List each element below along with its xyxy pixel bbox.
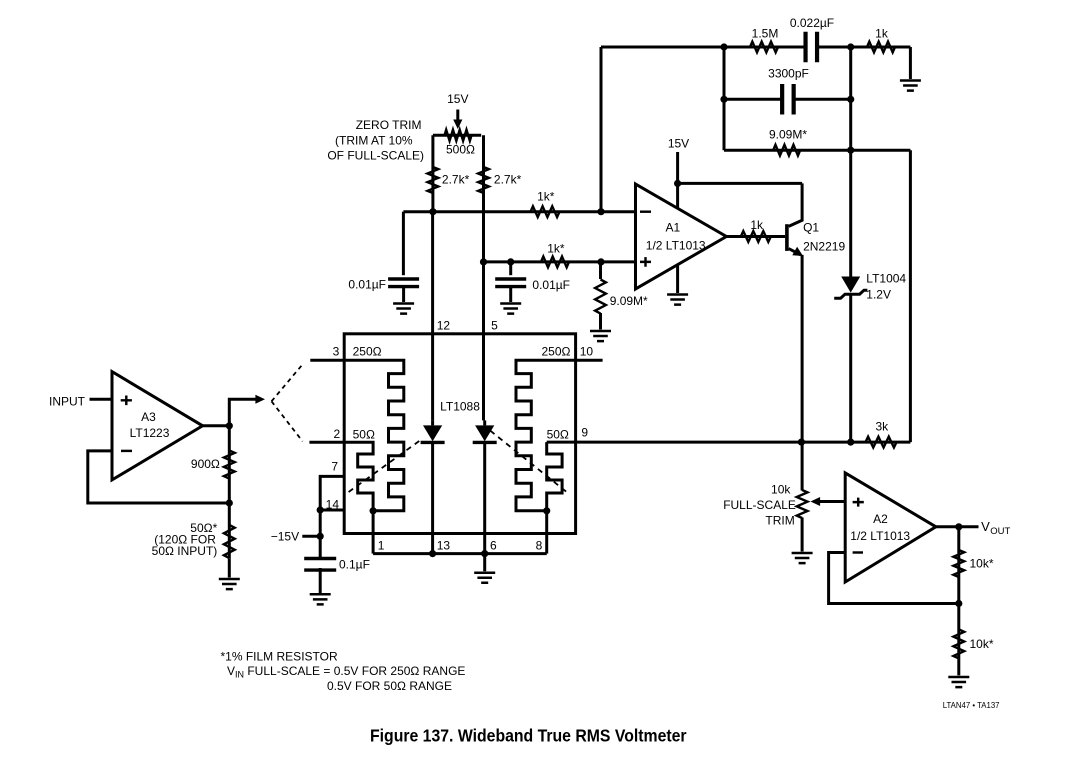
svg-text:OUT: OUT [990, 526, 1010, 537]
svg-text:3300pF: 3300pF [768, 67, 809, 81]
svg-text:0.01µF: 0.01µF [348, 277, 386, 291]
svg-text:LT1223: LT1223 [130, 426, 170, 440]
svg-text:250Ω: 250Ω [542, 344, 571, 358]
svg-text:A3: A3 [141, 410, 156, 424]
svg-text:0.5V FOR 50Ω RANGE: 0.5V FOR 50Ω RANGE [327, 679, 452, 693]
svg-text:LT1088: LT1088 [440, 400, 480, 414]
svg-text:1.2V: 1.2V [866, 287, 891, 301]
svg-text:9.09M*: 9.09M* [769, 128, 807, 142]
svg-text:10: 10 [580, 345, 594, 359]
svg-text:500Ω: 500Ω [446, 142, 475, 156]
svg-text:VIN FULL-SCALE = 0.5V FOR 250Ω: VIN FULL-SCALE = 0.5V FOR 250Ω RANGE [227, 664, 465, 680]
svg-text:5: 5 [491, 319, 498, 333]
svg-text:1/2 LT1013: 1/2 LT1013 [646, 239, 706, 253]
svg-text:Figure 137. Wideband True RMS: Figure 137. Wideband True RMS Voltmeter [370, 726, 687, 746]
svg-text:1k: 1k [875, 27, 889, 41]
svg-text:−15V: −15V [271, 530, 299, 544]
svg-text:10k*: 10k* [970, 637, 994, 651]
svg-text:TRIM: TRIM [765, 514, 794, 528]
svg-text:10k: 10k [771, 482, 791, 496]
svg-text:0.1µF: 0.1µF [339, 558, 370, 572]
svg-text:250Ω: 250Ω [353, 344, 382, 358]
svg-text:A2: A2 [873, 512, 888, 526]
svg-text:*1% FILM RESISTOR: *1% FILM RESISTOR [221, 650, 338, 664]
svg-text:14: 14 [326, 497, 340, 511]
svg-text:(TRIM AT 10%: (TRIM AT 10% [335, 133, 413, 147]
svg-text:10k*: 10k* [970, 556, 994, 570]
svg-text:3k: 3k [875, 419, 889, 433]
svg-text:50Ω INPUT): 50Ω INPUT) [152, 544, 218, 558]
svg-text:3: 3 [333, 344, 340, 358]
svg-text:7: 7 [331, 460, 338, 474]
svg-text:12: 12 [437, 319, 451, 333]
svg-text:1.5M: 1.5M [752, 27, 779, 41]
svg-text:V: V [981, 519, 990, 534]
svg-text:0.01µF: 0.01µF [532, 278, 570, 292]
svg-text:ZERO TRIM: ZERO TRIM [356, 118, 422, 132]
svg-text:2.7k*: 2.7k* [442, 172, 470, 186]
svg-text:1k*: 1k* [547, 242, 565, 256]
svg-text:1k: 1k [750, 218, 764, 232]
svg-text:9.09M*: 9.09M* [610, 294, 648, 308]
svg-text:A1: A1 [665, 221, 680, 235]
svg-text:50Ω: 50Ω [547, 427, 569, 441]
svg-text:Q1: Q1 [803, 220, 819, 234]
svg-text:8: 8 [536, 538, 543, 552]
svg-text:LT1004: LT1004 [866, 272, 906, 286]
svg-text:LTAN47 • TA137: LTAN47 • TA137 [943, 701, 1000, 710]
svg-text:13: 13 [437, 538, 451, 552]
svg-text:1k*: 1k* [537, 189, 555, 203]
svg-text:15V: 15V [447, 92, 468, 106]
svg-text:FULL-SCALE: FULL-SCALE [723, 498, 796, 512]
svg-text:6: 6 [490, 538, 497, 552]
svg-text:2.7k*: 2.7k* [494, 172, 522, 186]
svg-text:OF FULL-SCALE): OF FULL-SCALE) [327, 149, 424, 163]
svg-text:15V: 15V [668, 137, 689, 151]
svg-text:50Ω: 50Ω [353, 427, 375, 441]
svg-text:9: 9 [581, 426, 588, 440]
svg-text:0.022µF: 0.022µF [790, 16, 834, 30]
svg-text:1/2 LT1013: 1/2 LT1013 [850, 529, 910, 543]
svg-text:2: 2 [334, 427, 341, 441]
svg-text:900Ω: 900Ω [191, 457, 220, 471]
svg-text:INPUT: INPUT [49, 394, 86, 408]
svg-text:2N2219: 2N2219 [803, 240, 845, 254]
svg-text:1: 1 [378, 538, 385, 552]
